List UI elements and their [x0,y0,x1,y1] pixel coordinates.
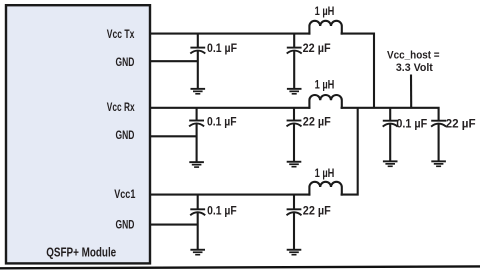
capacitor C2 22 uF (row 1) [287,34,302,89]
svg-text:22 µF: 22 µF [303,115,331,129]
svg-text:1 µH: 1 µH [315,78,335,92]
svg-text:QSFP+ Module: QSFP+ Module [46,245,116,259]
svg-text:3.3 Volt: 3.3 Volt [396,62,433,74]
svg-text:22 µF: 22 µF [303,41,331,55]
wire GND row 3 [150,224,198,226]
svg-text:1 µH: 1 µH [315,4,335,18]
wire Vcc1 rail (left of L3) [150,194,310,196]
bottom rule [0,266,480,268]
svg-text:0.1 µF: 0.1 µF [207,41,237,55]
ground (C4) [287,161,302,168]
ground (C8) [287,249,302,256]
svg-text:22 µF: 22 µF [446,116,476,130]
ground (C7) [190,249,205,256]
svg-text:Vcc1: Vcc1 [114,187,135,201]
capacitor C6 22 uF (host) [431,121,446,161]
wire Vcc_host rail (right of L2) with corner into C6 lead [341,108,439,121]
inductor L1 1 uH (row 1) [309,21,341,35]
capacitor C5 0.1 uF (host) [383,108,398,161]
wire Vcc Tx rail (left of L1) [150,33,310,35]
wire Vcc Rx rail (left of L2) [150,107,310,109]
capacitor C4 22 uF (row 2) [287,108,302,161]
wire Vcc_host label stub [410,75,412,108]
capacitor C1 0.1 uF (row 1) [190,34,205,89]
svg-text:Vcc Rx: Vcc Rx [107,100,135,114]
ground (C3) [189,161,204,168]
svg-text:Vcc_host =: Vcc_host = [387,50,440,62]
capacitor C7 0.1 uF (row 3) [190,195,205,250]
ground (C2) [287,88,302,95]
svg-text:22 µF: 22 µF [303,203,331,217]
wire Vcc Tx rail (right of L1) + corner down to Vcc_host node [341,34,374,108]
wire GND row 1 [150,60,198,62]
svg-text:0.1 µF: 0.1 µF [207,115,237,129]
ground (C6) [431,160,446,167]
QSFP+ Module box U1 [6,5,150,263]
ground (C5) [383,160,398,167]
inductor L3 1 uH (row 3) [309,182,341,196]
svg-text:GND: GND [116,55,135,69]
wire GND row 2 [150,135,197,137]
svg-text:Vcc Tx: Vcc Tx [107,27,135,41]
svg-text:0.1 µF: 0.1 µF [396,116,427,130]
svg-text:GND: GND [116,128,135,142]
capacitor C3 0.1 uF (row 2) [189,108,204,162]
svg-text:GND: GND [116,217,135,231]
inductor L2 1 uH (row 2) [309,95,341,109]
svg-text:0.1 µF: 0.1 µF [207,203,237,217]
wire Vcc1 rail (right of L3) + corner up to Vcc_host rail [341,108,358,195]
ground (C1) [191,88,206,95]
capacitor C8 22 uF (row 3) [287,195,302,250]
svg-text:1 µH: 1 µH [315,166,335,180]
